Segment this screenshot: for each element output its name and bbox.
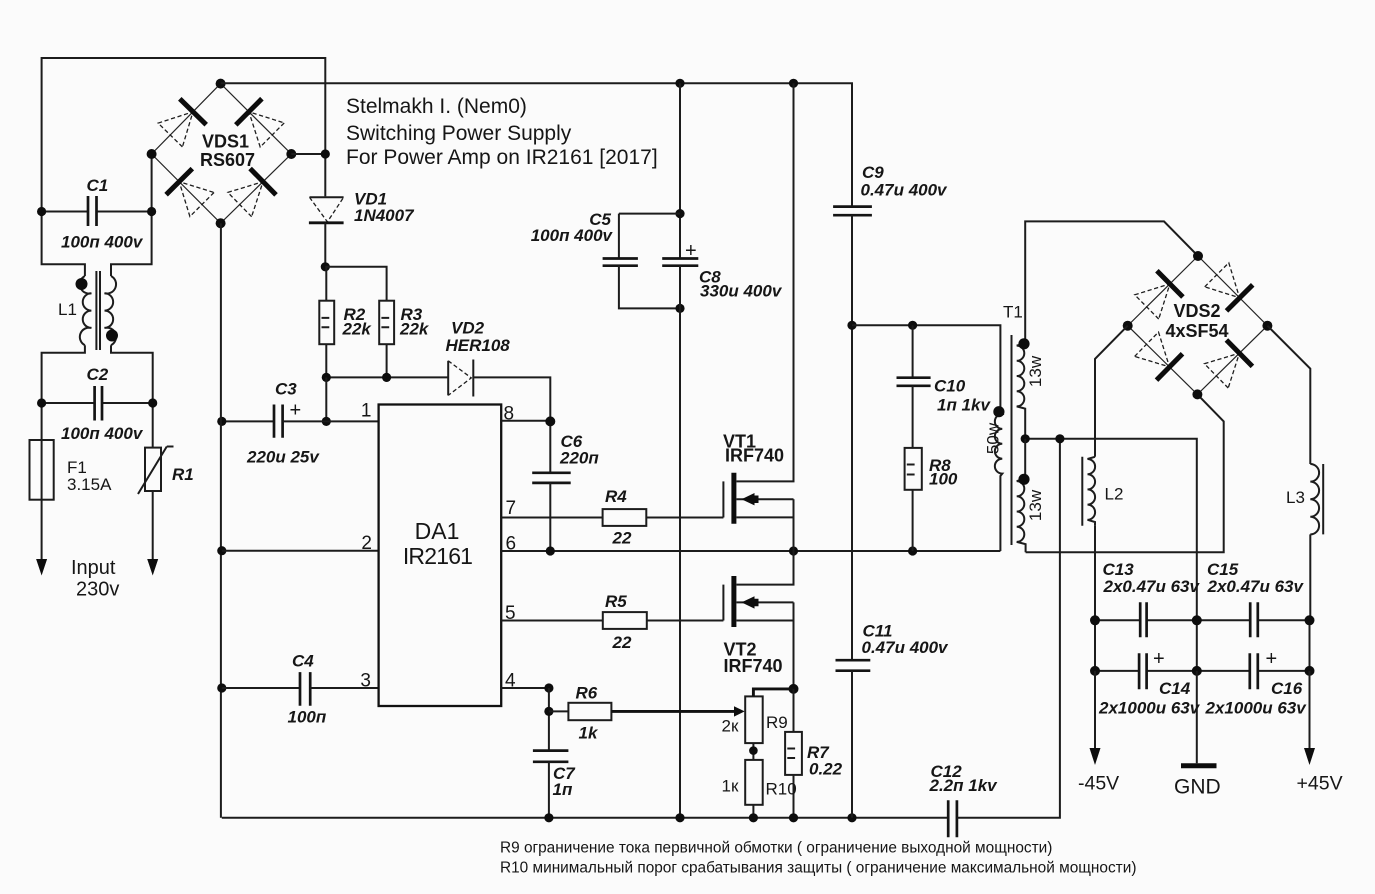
svg-text:Input: Input <box>71 557 116 579</box>
wire: pin4 row <box>501 687 549 689</box>
svg-text:C2: C2 <box>87 365 109 384</box>
svg-text:330u 400v: 330u 400v <box>700 282 783 301</box>
node: C13 row left <box>1090 615 1100 625</box>
transistor VT1 channel bar <box>731 473 736 524</box>
svg-text:C10: C10 <box>934 377 966 396</box>
resistor R4 body <box>603 509 647 526</box>
wire: bridge left node down to L1 right winding top <box>111 154 152 276</box>
VDS1 diode D3 bottom-left triangle <box>179 182 214 217</box>
wire: C9 bottom to C11 top <box>851 215 853 660</box>
node: VD1 branch top <box>321 149 330 158</box>
transformer T1 core line <box>1011 335 1013 545</box>
transistor VT2 source lead <box>737 620 794 622</box>
svg-text:100п 400v: 100п 400v <box>531 226 614 245</box>
svg-text:C1: C1 <box>87 176 109 195</box>
svg-text:2.2п 1kv: 2.2п 1kv <box>929 776 999 795</box>
wire: pin2 row <box>222 550 379 552</box>
wire: R9 top to VT2 source node (bold) <box>753 689 793 697</box>
wire: left rail C1 row to L1 left winding top <box>42 212 85 276</box>
input arrow right <box>147 559 158 576</box>
VDS1 diode D1 cathode bar <box>180 99 206 125</box>
svg-text:T1: T1 <box>1003 303 1023 322</box>
svg-text:C3: C3 <box>275 380 297 399</box>
wire: C13/C15 row <box>1095 619 1310 621</box>
capacitor C2 plates <box>95 386 102 421</box>
VDS2 diode D1 cathode bar <box>1157 271 1183 297</box>
VDS2 diode D2 cathode bar <box>1227 285 1253 311</box>
T1 primary 50w winding <box>995 412 1002 551</box>
resistor R8 body <box>905 448 922 490</box>
transistor VT1 body lead with arrow <box>737 498 794 500</box>
input arrow left <box>36 559 47 576</box>
svg-text:DA1: DA1 <box>415 518 460 544</box>
node: central rail / C4 row <box>217 683 226 692</box>
svg-text:R5: R5 <box>605 592 627 611</box>
wire: L3 bottom to C15 row <box>1309 534 1311 620</box>
svg-text:0.47u 400v: 0.47u 400v <box>861 181 949 200</box>
wire: VD1 cathode to R2/R3 node <box>324 223 326 267</box>
node: bottom rail / C8 column <box>675 813 684 822</box>
wire: R9 to R10 <box>752 743 754 760</box>
VDS2 diode D3 bottom-left triangle <box>1135 332 1170 367</box>
wire: R8 bottom to pin6 rail <box>912 490 914 551</box>
svg-text:R10 минимальный порог срабатыв: R10 минимальный порог срабатывания защит… <box>500 860 1136 877</box>
capacitor C16 plates <box>1250 653 1258 689</box>
inductor L1 right winding <box>105 276 117 345</box>
svg-text:2x0.47u 63v: 2x0.47u 63v <box>1103 577 1201 596</box>
T1 secondary bottom phase dot <box>1018 474 1029 485</box>
svg-text:C4: C4 <box>292 652 314 671</box>
wire: snubber row to T1 primary top <box>852 325 1000 411</box>
wire: top DC+ rail from bridge top to C9 column <box>221 83 852 206</box>
svg-text:+: + <box>290 400 302 422</box>
wire: R10 bottom to rail <box>752 805 754 818</box>
svg-text:4: 4 <box>505 671 516 692</box>
svg-text:1к: 1к <box>722 777 739 796</box>
transistor VT1 gate line <box>722 481 724 517</box>
diode VD2 cathode bar <box>472 360 474 397</box>
L3 core bar <box>1322 464 1324 534</box>
node: bottom rail / C7 <box>544 813 553 822</box>
node: pin8/VD2/C6 junction <box>545 416 555 426</box>
resistor R7 body <box>785 732 802 775</box>
wire: C11 bottom to rail <box>851 671 853 818</box>
wire: C8 column down to bottom rail <box>679 266 681 818</box>
T1 secondary top 13w winding <box>1017 343 1025 438</box>
VDS2 diode D4 cathode bar <box>1226 340 1252 366</box>
svg-text:VD2: VD2 <box>451 319 485 338</box>
resistor R3 body <box>379 301 394 345</box>
capacitor C1 plates <box>88 196 97 226</box>
IC DA1 IR2161 body <box>379 405 502 707</box>
svg-text:100: 100 <box>929 470 958 489</box>
node: C16 row right <box>1305 666 1315 676</box>
node: C14 row mid <box>1192 666 1202 676</box>
wire: R2/R3 bottom rail to VD2 anode <box>326 376 448 378</box>
wire: +45V lead <box>1309 671 1311 751</box>
bridge VDS1 diamond edges <box>152 84 292 224</box>
node: VDS1 left <box>147 149 157 159</box>
node: VT2 source / R9 / R7 <box>789 684 799 694</box>
L1 core lines <box>96 271 100 350</box>
node: center tap / C12 riser <box>1055 434 1064 443</box>
wire: C10 to R8 <box>912 386 914 448</box>
svg-text:0.22: 0.22 <box>809 760 843 779</box>
transistor VT2 body lead <box>737 601 794 603</box>
capacitor C7 plates <box>533 751 569 762</box>
diode VD2 triangle <box>447 361 449 396</box>
svg-text:+: + <box>1153 648 1165 670</box>
wire: C2 right node down to varistor R1 <box>152 403 154 448</box>
wire: pin4 column down to C7 <box>548 688 550 751</box>
svg-text:2x1000u 63v: 2x1000u 63v <box>1205 699 1308 718</box>
capacitor C12 plates <box>948 800 957 837</box>
wire: C5 bottom link <box>619 266 680 309</box>
resistor R6 body <box>568 703 611 720</box>
transistor VT1 drain lead <box>737 83 794 481</box>
inductor L2 winding <box>1088 457 1096 526</box>
VDS1 diode D2 top-right triangle <box>249 112 284 147</box>
svg-text:2x1000u 63v: 2x1000u 63v <box>1098 699 1201 718</box>
wire: GND lead <box>1196 671 1198 763</box>
node: C5/C8 bottom junction <box>675 304 684 313</box>
node: C3 right / pin1 junction <box>322 417 331 426</box>
svg-text:8: 8 <box>504 404 515 425</box>
wire: C5 branch top link <box>619 214 680 259</box>
transistor VT2 body arrow <box>742 596 759 608</box>
svg-text:Switching Power Supply: Switching Power Supply <box>346 122 572 145</box>
svg-text:3: 3 <box>360 671 371 692</box>
svg-text:2: 2 <box>361 533 372 554</box>
node: pin6 rail / C6 <box>546 546 555 555</box>
svg-text:C16: C16 <box>1271 679 1303 698</box>
node: VDS2 left <box>1123 321 1133 331</box>
svg-text:100п 400v: 100п 400v <box>61 424 144 443</box>
wire: mid column between rows <box>1196 620 1198 671</box>
resistor R5 body <box>603 612 647 629</box>
svg-text:-45V: -45V <box>1078 773 1119 795</box>
svg-text:R10: R10 <box>766 780 797 799</box>
svg-text:L3: L3 <box>1286 488 1305 507</box>
wire: C14/C16 row <box>1095 670 1310 672</box>
svg-text:230v: 230v <box>76 579 119 601</box>
node: pin6 rail / VT midpoint <box>789 546 798 555</box>
svg-text:22: 22 <box>612 529 632 548</box>
VDS1 diode D1 top-left triangle <box>158 112 193 147</box>
node: VD1/R2 junction <box>321 262 330 271</box>
svg-text:22k: 22k <box>342 320 373 339</box>
wire: L2 bottom to C13 row <box>1094 526 1096 621</box>
node: central rail / pin2 <box>217 546 226 555</box>
svg-text:1N4007: 1N4007 <box>354 206 415 225</box>
node: VDS2 right <box>1262 321 1272 331</box>
fuse F1 through-wire <box>41 440 43 500</box>
resistor R10 body <box>745 760 763 805</box>
wire: R7 leads <box>793 689 795 818</box>
svg-text:5: 5 <box>505 603 516 624</box>
wire: C1 row left segment <box>42 211 88 213</box>
node: bottom rail / R10 <box>749 813 758 822</box>
wire: C12 to center-tap riser <box>957 439 1060 818</box>
inductor L3 winding <box>1310 464 1319 534</box>
svg-text:HER108: HER108 <box>446 336 511 355</box>
node: C14 row left <box>1090 666 1100 676</box>
capacitor C14 plates <box>1139 653 1147 689</box>
resistor R2 body <box>319 301 334 345</box>
wire: pin3 row left of C4 <box>222 687 300 689</box>
svg-text:IRF740: IRF740 <box>725 446 784 466</box>
node: center tap at winding <box>1021 434 1030 443</box>
node: VDS1 top <box>216 79 226 89</box>
VDS1 diode D4 bottom-right triangle <box>228 182 263 217</box>
VDS2 diode D3 cathode bar <box>1157 354 1183 380</box>
wire: C2 left node down to fuse F1 <box>41 403 43 440</box>
node: VDS1 right <box>286 149 296 159</box>
L1 phase dot upper-left <box>76 278 88 290</box>
wire: VDS1 right node to VD1 branch <box>291 153 325 155</box>
node: C2 right junction <box>148 398 157 407</box>
svg-text:IR2161: IR2161 <box>403 543 472 569</box>
capacitor C11 plates <box>836 660 871 671</box>
resistor R7 inner marks <box>787 749 795 759</box>
svg-text:100п: 100п <box>288 708 327 727</box>
svg-text:22k: 22k <box>399 320 430 339</box>
node: top rail / VT1 drain <box>789 79 798 88</box>
capacitor C6 plates <box>532 473 571 483</box>
resistor R3 inner marks <box>381 318 389 327</box>
VDS2 diode D4 bottom-right triangle <box>1204 353 1239 388</box>
wire: pin7 row to R4 <box>501 517 602 519</box>
wire: -45V lead <box>1094 671 1096 751</box>
svg-text:1п 1kv: 1п 1kv <box>937 396 991 415</box>
resistor R8 inner marks <box>907 465 915 475</box>
-45V arrow <box>1090 748 1101 765</box>
wire: C2 row right segment <box>102 402 153 404</box>
svg-text:GND: GND <box>1174 776 1221 799</box>
svg-text:Stelmakh I. (Nem0): Stelmakh I. (Nem0) <box>346 95 527 118</box>
wire: top-left loop from left rail to bridge right branch <box>42 58 326 212</box>
node: R3 bottom <box>382 373 391 382</box>
svg-text:2x0.47u 63v: 2x0.47u 63v <box>1207 577 1305 596</box>
wire: center tap lead to bottom 13w <box>1024 439 1026 479</box>
varistor R1 diagonal <box>138 447 174 495</box>
wire: VD2 cathode to pin8 column <box>473 377 550 472</box>
node: C2 left junction <box>37 398 46 407</box>
resistor R2 inner marks <box>322 318 330 327</box>
svg-text:220п: 220п <box>559 449 599 468</box>
svg-text:13w: 13w <box>1026 355 1045 387</box>
wire: pin8 row <box>501 420 550 422</box>
svg-text:6: 6 <box>506 534 517 555</box>
capacitor C8 plates <box>662 259 698 266</box>
capacitor C4 plates <box>300 672 310 706</box>
node: VDS2 top <box>1193 251 1203 261</box>
wire: L1 left winding bottom to C2 row <box>42 345 85 403</box>
svg-text:RS607: RS607 <box>200 150 255 170</box>
wire: R3 bottom to supply wire <box>386 344 388 377</box>
L2 core bar <box>1081 457 1083 526</box>
wire: C10 top lead <box>912 325 914 377</box>
node: pin6 rail / R8 <box>908 546 917 555</box>
wire: central DC- rail from bridge bottom to bottom rail <box>220 223 222 818</box>
svg-text:50w: 50w <box>984 422 1003 454</box>
VDS2 diode D2 top-right triangle <box>1205 263 1240 298</box>
svg-text:R4: R4 <box>605 487 627 506</box>
wire: R5 to VT2 gate <box>647 620 724 622</box>
wire: C6 bottom to pin6 rail <box>549 483 551 551</box>
svg-text:1: 1 <box>361 401 372 422</box>
L1 phase dot lower-right <box>106 330 118 342</box>
wire: bottom DC- rail <box>222 817 948 819</box>
svg-text:L2: L2 <box>1105 485 1124 504</box>
diode VD1 triangle <box>310 196 344 198</box>
capacitor C9 plates <box>833 207 872 216</box>
trimmer R9 body <box>745 696 763 743</box>
svg-text:VDS1: VDS1 <box>202 132 249 152</box>
svg-text:+: + <box>1266 648 1278 670</box>
wire: C7 bottom to bottom rail <box>548 762 550 818</box>
svg-text:C9: C9 <box>862 163 884 182</box>
svg-text:+: + <box>685 240 697 262</box>
wire: F1 to input arrow left <box>41 500 43 562</box>
node: C1 right junction <box>147 207 156 216</box>
wire: R1 to input arrow right <box>152 491 154 562</box>
node: bottom rail / R7 <box>789 813 798 822</box>
svg-text:2к: 2к <box>722 717 739 736</box>
T1 primary phase dot <box>993 406 1004 417</box>
svg-text:220u 25v: 220u 25v <box>246 448 320 467</box>
node: top rail / C5C8 branch <box>675 79 684 88</box>
fuse F1 body <box>30 440 54 500</box>
node: C15 row right <box>1305 615 1315 625</box>
node: central rail / pin1 <box>217 417 226 426</box>
wire: pin1 row left of C3 <box>222 420 274 422</box>
wire: C5/C8 column top <box>679 83 681 258</box>
capacitor C10 plates <box>897 378 931 386</box>
wire: T1 center tap row <box>1025 439 1197 621</box>
svg-text:R1: R1 <box>172 465 194 484</box>
node: R9/R10 junction <box>749 746 758 755</box>
wire: right output column between rows <box>1309 620 1311 671</box>
node: pin4 corner <box>544 683 553 692</box>
transistor VT1 source lead <box>737 516 794 518</box>
wire: R6 to R9 wiper (bold) <box>611 710 738 713</box>
svg-text:C14: C14 <box>1159 679 1191 698</box>
T1 secondary top phase dot <box>1018 338 1029 349</box>
transistor VT1 body arrow <box>742 493 759 505</box>
T1 secondary top lead routing to VDS2 top <box>1025 221 1198 343</box>
+45V arrow <box>1304 748 1315 765</box>
wire: VDS2 left to L2 <box>1095 326 1128 457</box>
bridge VDS2 diamond edges <box>1128 256 1268 394</box>
wire: pin5 row to R5 <box>501 620 603 622</box>
node: C5 branch top <box>675 209 684 218</box>
R9 wiper arrowhead <box>734 706 745 716</box>
wire: C3 to pin 1 <box>283 420 379 422</box>
wire: L1 right winding bottom to C2 row <box>111 345 153 403</box>
VDS2 diode D1 top-left triangle <box>1135 284 1170 319</box>
svg-text:0.47u 400v: 0.47u 400v <box>862 638 950 657</box>
wire: R2 bottom to supply wire <box>325 344 327 377</box>
wire: VT2 body/source down to R7 node <box>793 602 795 689</box>
node: C1 left rail junction <box>37 207 46 216</box>
transistor VT2 gate line <box>722 585 724 621</box>
svg-text:1п: 1п <box>553 780 573 799</box>
node: snubber row / C10 <box>908 321 917 330</box>
svg-text:L1: L1 <box>58 300 77 319</box>
VDS1 diode D3 cathode bar <box>166 169 192 195</box>
transistor VT2 drain lead <box>737 551 794 585</box>
ground bar <box>1181 763 1217 768</box>
varistor R1 body <box>145 448 161 491</box>
node: C13 row mid <box>1192 615 1202 625</box>
T1 secondary bottom 13w winding <box>1017 479 1026 552</box>
svg-text:R9 ограничение тока первичной: R9 ограничение тока первичной обмотки ( … <box>500 840 1052 857</box>
wire: C2 row left segment <box>42 402 95 404</box>
wire: R4 to VT1 gate <box>646 517 723 519</box>
wire: pin6 half-bridge rail <box>501 550 1000 552</box>
capacitor C3 plates <box>274 405 283 438</box>
node: VDS2 bottom <box>1192 389 1202 399</box>
svg-text:7: 7 <box>506 498 517 519</box>
svg-text:IRF740: IRF740 <box>724 656 783 676</box>
wire: secondary bottom rail to VDS2 bottom <box>1026 394 1224 552</box>
wire: VDS2 right to L3 <box>1267 326 1310 464</box>
svg-text:13w: 13w <box>1026 489 1045 521</box>
wire: VT1 body/source down to midpoint <box>793 499 795 551</box>
svg-text:R9: R9 <box>766 713 788 732</box>
wire: left output column between rows <box>1094 620 1096 671</box>
svg-text:VDS2: VDS2 <box>1174 301 1221 321</box>
svg-text:22: 22 <box>612 633 632 652</box>
node: R2 bottom <box>322 373 331 382</box>
wire: C1 row right segment <box>97 211 152 213</box>
svg-text:4xSF54: 4xSF54 <box>1166 321 1229 341</box>
diode VD1 cathode bar <box>309 221 344 224</box>
VDS1 diode D2 cathode bar <box>236 99 262 125</box>
VDS1 diode D4 cathode bar <box>250 169 276 195</box>
svg-text:R6: R6 <box>576 684 598 703</box>
svg-text:1k: 1k <box>579 724 599 743</box>
svg-text:3.15A: 3.15A <box>67 475 112 494</box>
inductor L1 left winding <box>80 276 92 345</box>
capacitor C15 plates <box>1250 602 1258 637</box>
capacitor C5 plates <box>603 259 638 266</box>
svg-text:For Power Amp on IR2161 [2017]: For Power Amp on IR2161 [2017] <box>346 146 658 169</box>
wire: C4 to pin 3 <box>310 687 378 689</box>
svg-text:100п 400v: 100п 400v <box>61 233 144 252</box>
svg-text:+45V: +45V <box>1297 773 1343 795</box>
capacitor C13 plates <box>1140 602 1146 637</box>
node: snubber row left <box>847 321 856 330</box>
wire: R2/R3 top link <box>325 267 386 301</box>
node: R6 branch <box>544 707 553 716</box>
wire: R2 column down to pin1 row <box>325 377 327 421</box>
transistor VT2 channel bar <box>731 576 736 627</box>
wire: R6 left lead <box>549 710 569 712</box>
node: VDS1 bottom <box>216 218 226 228</box>
node: bottom rail / C9C11 column <box>847 813 856 822</box>
